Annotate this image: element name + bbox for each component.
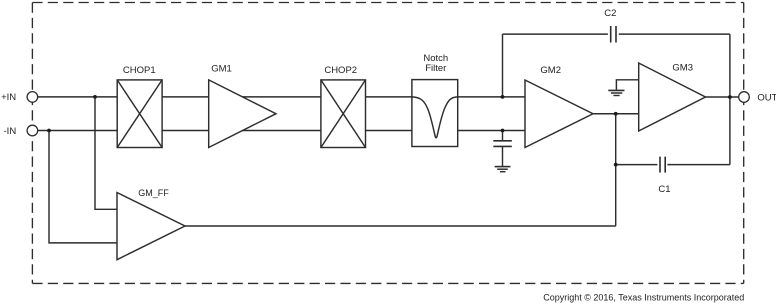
svg-text:GM1: GM1 xyxy=(211,64,232,75)
node junction C1 left xyxy=(614,163,618,167)
wire top rail left of C2 xyxy=(503,33,608,35)
svg-text:CHOP1: CHOP1 xyxy=(123,65,156,76)
label CHOP2 xyxy=(324,65,357,76)
capacitor at notch filter output xyxy=(493,141,512,147)
amplifier GM2 xyxy=(525,80,593,148)
svg-text:GM_FF: GM_FF xyxy=(138,188,169,198)
svg-text:Filter: Filter xyxy=(425,63,446,74)
wire +IN tap down to GM_FF upper input xyxy=(95,97,117,209)
wire notch output node down to filter capacitor xyxy=(502,131,504,141)
label Notch Filter xyxy=(423,53,448,74)
svg-text:C2: C2 xyxy=(604,8,616,19)
svg-text:-IN: -IN xyxy=(4,126,17,137)
wire GM3 upper input to ground xyxy=(616,80,638,90)
label GM_FF xyxy=(138,188,169,198)
label GM3 xyxy=(672,63,693,74)
wire top rail right of C2 xyxy=(619,33,730,35)
label GM1 xyxy=(211,64,232,75)
terminal OUT xyxy=(739,92,776,104)
wire C1 rail left of capacitor xyxy=(616,164,658,166)
chopper CHOP1 xyxy=(117,80,162,148)
svg-text:OUT: OUT xyxy=(757,92,776,103)
copyright note xyxy=(543,293,744,303)
amplifier GM_FF xyxy=(117,193,185,260)
svg-text:CHOP2: CHOP2 xyxy=(324,65,357,76)
terminal -IN xyxy=(4,125,38,137)
wire right riser from C2 rail through output node to C1 rail xyxy=(729,34,731,165)
wire upper signal path +IN to GM2 xyxy=(38,96,525,98)
node junction on -IN line xyxy=(47,129,51,133)
label C1 xyxy=(658,184,670,195)
svg-text:GM2: GM2 xyxy=(540,65,561,76)
notch filter block xyxy=(412,80,458,147)
wire -IN tap down to GM_FF lower input xyxy=(49,131,117,243)
svg-text:+IN: +IN xyxy=(1,92,16,103)
wire feedback riser from GM2 output node down to GM_FF output rail xyxy=(615,114,617,226)
amplifier GM3 xyxy=(639,63,706,131)
capacitor C2 xyxy=(611,26,616,43)
wire GM3 output to OUT terminal xyxy=(706,96,739,98)
label C2 xyxy=(604,8,616,19)
chopper CHOP2 xyxy=(321,80,366,148)
node junction upper wire to C2 riser xyxy=(501,95,505,99)
terminal +IN xyxy=(1,92,38,104)
svg-text:GM3: GM3 xyxy=(672,63,693,74)
node junction on +IN line xyxy=(93,95,97,99)
wire filter capacitor to ground xyxy=(502,146,504,166)
capacitor C1 xyxy=(660,157,665,173)
ground at GM3 upper input xyxy=(608,90,624,95)
wire GM_FF output rail xyxy=(185,225,616,227)
wire riser from upper-path node to C2 top rail xyxy=(502,34,504,97)
svg-text:Copyright © 2016, Texas Instru: Copyright © 2016, Texas Instruments Inco… xyxy=(543,293,744,303)
node junction lower wire to filter cap xyxy=(501,129,505,133)
label CHOP1 xyxy=(123,65,156,76)
wire C1 rail right of capacitor xyxy=(667,164,730,166)
label GM2 xyxy=(540,65,561,76)
ground at filter capacitor xyxy=(495,167,511,172)
node junction GM2 output xyxy=(614,112,618,116)
node junction output to feedback riser xyxy=(728,95,732,99)
svg-text:C1: C1 xyxy=(658,184,670,195)
wire lower signal path -IN to GM2 xyxy=(38,130,525,132)
wire GM2 output to GM3 lower input xyxy=(593,113,639,115)
amplifier GM1 xyxy=(209,80,276,148)
